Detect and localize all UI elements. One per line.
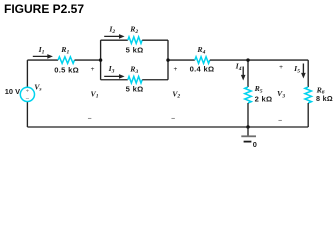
svg-text:I3: I3 (108, 64, 115, 74)
node V2 junction dot (166, 58, 169, 61)
wire: bottom branch right segment (142, 79, 168, 81)
wire: top branch right segment (142, 39, 168, 41)
node V2 polarity minus (171, 115, 175, 122)
wire: node V2 to R4 (168, 59, 195, 61)
svg-text:8 kΩ: 8 kΩ (316, 94, 333, 103)
label Vs (34, 82, 41, 92)
value 0.4 kOhm (190, 64, 215, 73)
node V1 polarity minus (87, 115, 91, 122)
svg-text:−: − (171, 115, 175, 122)
current arrow I5 (301, 64, 306, 79)
wire: main top from source corner to R1 (27, 59, 58, 61)
value 2 kOhm (255, 95, 273, 104)
svg-text:R3: R3 (129, 64, 138, 74)
wire: R6 branch vertical bottom (307, 103, 309, 127)
resistor R1 zigzag (58, 57, 75, 64)
label R5 (254, 84, 263, 94)
label R2 (129, 24, 138, 34)
svg-text:R5: R5 (254, 84, 263, 94)
wire: R5 branch vertical bottom (247, 103, 249, 127)
wire: left vertical of parallel box (node V1 rail) (100, 40, 102, 80)
node V3 junction dot (246, 58, 249, 61)
svg-text:V3: V3 (277, 89, 285, 99)
label I1 (38, 45, 45, 55)
svg-text:+: + (279, 64, 283, 71)
svg-text:5 kΩ: 5 kΩ (126, 45, 144, 54)
svg-text:+: + (91, 66, 95, 73)
label R6 (316, 85, 325, 95)
svg-text:−: − (87, 115, 91, 122)
wire: node V3 to top-right corner (248, 59, 308, 61)
svg-text:I4: I4 (235, 61, 242, 71)
svg-text:I1: I1 (38, 45, 45, 55)
wire: R1 to node V1 (75, 59, 101, 61)
node V1 polarity + (91, 66, 95, 73)
label I3 (108, 64, 115, 74)
node V3 polarity + (279, 64, 283, 71)
value 5 kOhm (R3) (126, 84, 144, 93)
svg-text:I5: I5 (293, 64, 300, 74)
wire: top branch left segment (101, 39, 128, 41)
svg-text:V1: V1 (91, 89, 99, 99)
svg-text:V2: V2 (172, 89, 180, 99)
label R1 (60, 45, 69, 55)
resistor R2 zigzag (128, 37, 142, 44)
node V3 label (277, 89, 285, 99)
wire: bottom branch left segment (101, 79, 128, 81)
svg-text:R4: R4 (196, 45, 205, 55)
svg-text:2 kΩ: 2 kΩ (255, 95, 273, 104)
wire: left rail below source (26, 102, 28, 128)
current arrow I1 (33, 54, 53, 59)
svg-text:+: + (26, 88, 29, 94)
value 0.5 kOhm (54, 65, 79, 74)
svg-text:−: − (26, 96, 30, 103)
wire: bottom rail (27, 126, 308, 128)
current arrow I3 (104, 74, 124, 79)
node V2 polarity + (173, 66, 177, 73)
resistor R3 zigzag (128, 76, 142, 83)
wire: R6 branch vertical top (307, 60, 309, 87)
wire: left rail above source (26, 60, 28, 87)
svg-text:10 V: 10 V (5, 87, 20, 96)
current arrow I2 (104, 34, 124, 39)
svg-text:Vs: Vs (34, 82, 41, 92)
ground node junction dot (246, 125, 249, 128)
wire: R5 branch vertical top (247, 60, 249, 87)
voltage source Vs circle (20, 87, 34, 102)
svg-text:+: + (173, 66, 177, 73)
svg-text:R2: R2 (129, 24, 138, 34)
svg-text:R1: R1 (60, 45, 69, 55)
ground symbol (241, 127, 256, 142)
resistor R6 zigzag (305, 87, 312, 103)
current arrow I4 (241, 67, 246, 81)
value 5 kOhm (R2) (126, 45, 144, 54)
ground net label 0 (253, 140, 257, 149)
resistor R5 zigzag (245, 87, 252, 103)
wire: right vertical of parallel box (node V2 rail) (167, 40, 169, 80)
svg-text:−: − (278, 117, 282, 124)
label R4 (196, 45, 205, 55)
value 10 V (5, 87, 20, 96)
svg-text:0: 0 (253, 140, 257, 149)
node V1 junction dot (99, 58, 102, 61)
label I4 (235, 61, 242, 71)
value 8 kOhm (316, 94, 333, 103)
node V1 label (91, 89, 99, 99)
resistor R4 zigzag (195, 57, 210, 64)
svg-text:I2: I2 (108, 24, 115, 34)
svg-text:0.4 kΩ: 0.4 kΩ (190, 64, 215, 73)
node V2 label (172, 89, 180, 99)
figure caption (4, 2, 84, 16)
label I5 (293, 64, 300, 74)
svg-text:0.5 kΩ: 0.5 kΩ (54, 65, 79, 74)
label R3 (129, 64, 138, 74)
svg-text:5 kΩ: 5 kΩ (126, 84, 144, 93)
label I2 (108, 24, 115, 34)
node V3 polarity minus (278, 117, 282, 124)
wire: R4 to node V3 (210, 59, 248, 61)
